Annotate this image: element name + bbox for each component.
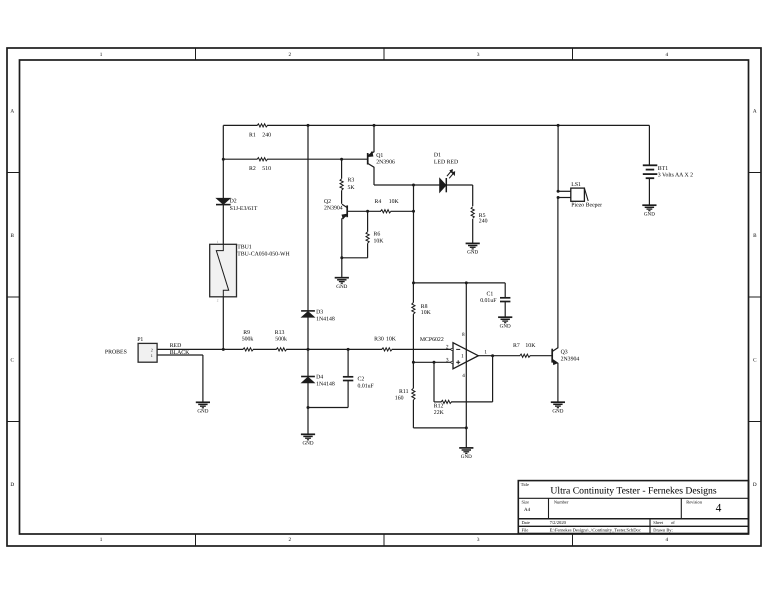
svg-text:P1: P1 xyxy=(137,337,143,343)
resistor R7 xyxy=(513,343,536,357)
svg-text:GND: GND xyxy=(644,211,655,217)
fuse TBU1 xyxy=(210,240,291,302)
resistor R13 xyxy=(275,330,287,351)
svg-text:GND: GND xyxy=(552,408,563,414)
svg-text:160: 160 xyxy=(395,396,404,402)
svg-text:3: 3 xyxy=(477,52,480,58)
diode D2 xyxy=(216,198,258,212)
svg-text:3: 3 xyxy=(477,537,480,543)
svg-text:BLACK: BLACK xyxy=(170,350,190,356)
svg-text:D: D xyxy=(10,482,14,488)
wire Q2 base / R4 xyxy=(347,210,381,212)
resistor R12 xyxy=(434,400,452,416)
wire Q1 collector down xyxy=(373,167,375,185)
wire D4 to C2 bottom xyxy=(308,407,348,409)
resistor R2 xyxy=(249,158,271,173)
resistor R8 xyxy=(412,283,432,362)
svg-text:10K: 10K xyxy=(374,239,385,245)
svg-text:D: D xyxy=(753,482,757,488)
svg-text:8: 8 xyxy=(462,332,465,338)
wire left branch: top rail down to D2 xyxy=(222,125,224,198)
svg-text:A: A xyxy=(10,108,14,114)
resistor R9 xyxy=(242,330,254,351)
ground below battery xyxy=(642,204,656,206)
wire Q1 emitter to top rail xyxy=(373,125,375,152)
resistor R1 xyxy=(249,124,271,139)
svg-text:D3: D3 xyxy=(316,310,323,316)
svg-text:Number: Number xyxy=(554,499,569,504)
wire top V+ rail xyxy=(223,124,257,126)
svg-text:R6: R6 xyxy=(374,231,381,237)
wire Q2 emitter to ground xyxy=(341,218,343,277)
wire probe rail down to D4 xyxy=(307,349,309,376)
svg-text:R11: R11 xyxy=(399,389,409,395)
svg-text:1N4148: 1N4148 xyxy=(316,317,335,323)
svg-text:Date: Date xyxy=(522,520,530,525)
battery BT1 xyxy=(643,125,693,204)
capacitor C1 xyxy=(480,283,510,317)
wire Q3 emitter to ground xyxy=(557,363,559,402)
svg-text:Ultra Continuity Tester - Fern: Ultra Continuity Tester - Fernekes Desig… xyxy=(550,486,716,497)
svg-text:R7: R7 xyxy=(513,343,520,349)
connector P1 probes xyxy=(105,337,157,362)
LED D1 xyxy=(434,152,458,192)
wire D4 to ground xyxy=(307,383,309,434)
svg-text:22K: 22K xyxy=(434,410,445,416)
svg-text:C2: C2 xyxy=(358,376,365,382)
svg-text:D1: D1 xyxy=(434,152,441,158)
svg-text:2N3904: 2N3904 xyxy=(561,357,580,363)
svg-text:2N3904: 2N3904 xyxy=(324,206,343,212)
ground below D4 xyxy=(301,433,315,435)
wire op-amp power vertical xyxy=(465,283,467,448)
wire R3 branch xyxy=(341,159,343,178)
svg-text:0.01uF: 0.01uF xyxy=(480,298,497,304)
transistor Q1 xyxy=(368,152,395,168)
svg-text:4: 4 xyxy=(716,503,722,515)
wire R12 feedback xyxy=(434,401,442,403)
svg-text:1: 1 xyxy=(461,354,464,360)
wire op-amp pin 3 node xyxy=(413,361,452,363)
svg-text:1: 1 xyxy=(100,537,103,543)
diode D3 xyxy=(301,310,335,323)
wire D3 to probe rail xyxy=(307,317,309,349)
svg-text:of: of xyxy=(671,520,675,525)
resistor R11 xyxy=(395,362,415,428)
wire TBU1 to probe rail xyxy=(222,297,224,350)
svg-text:Q3: Q3 xyxy=(561,349,568,355)
svg-text:500k: 500k xyxy=(242,336,254,343)
svg-text:R30: R30 xyxy=(374,337,384,343)
svg-text:B: B xyxy=(753,233,757,239)
svg-text:TBU1: TBU1 xyxy=(237,245,252,251)
svg-text:2: 2 xyxy=(289,52,292,58)
svg-text:10K: 10K xyxy=(386,337,397,343)
wire LED-line down to supply rail xyxy=(413,185,415,283)
wire R6 bottom to Q2 emitter xyxy=(342,257,368,259)
speaker LS1 piezo beeper xyxy=(558,182,602,209)
svg-text:A: A xyxy=(753,108,757,114)
resistor R4 xyxy=(375,199,400,213)
resistor R6 xyxy=(366,211,384,257)
svg-text:LS1: LS1 xyxy=(571,182,581,188)
svg-text:7/2/2020: 7/2/2020 xyxy=(550,520,567,525)
svg-text:D4: D4 xyxy=(316,374,323,380)
svg-text:D2: D2 xyxy=(230,199,237,205)
svg-text:3: 3 xyxy=(446,357,449,363)
svg-text:2: 2 xyxy=(151,347,153,352)
svg-text:1: 1 xyxy=(484,350,487,356)
ground below op-amp xyxy=(459,447,473,449)
svg-text:500k: 500k xyxy=(275,336,287,343)
op-amp U1 MCP6022 xyxy=(420,332,487,379)
svg-text:R12: R12 xyxy=(434,404,444,410)
svg-text:S1J-E3/61T: S1J-E3/61T xyxy=(230,206,258,212)
svg-text:3 Volts AA X 2: 3 Volts AA X 2 xyxy=(658,171,693,178)
svg-text:LED RED: LED RED xyxy=(434,160,458,166)
svg-text:240: 240 xyxy=(262,133,271,139)
wire op-amp output to Q3 base xyxy=(478,355,520,357)
svg-text:R2: R2 xyxy=(249,166,256,172)
wire R11 bottom to ground rail xyxy=(413,427,466,429)
svg-text:C1: C1 xyxy=(487,292,494,298)
svg-text:510: 510 xyxy=(262,166,271,172)
svg-text:Drawn By:: Drawn By: xyxy=(653,527,672,532)
wire Q3 collector up to beeper xyxy=(557,198,559,349)
svg-text:R9: R9 xyxy=(243,330,250,336)
svg-text:Size: Size xyxy=(522,499,530,504)
svg-text:B: B xyxy=(10,233,14,239)
wire LED cathode to R5 xyxy=(446,184,472,186)
resistor R5 xyxy=(471,207,487,225)
svg-text:TBU-CA050-050-WH: TBU-CA050-050-WH xyxy=(237,252,290,258)
svg-text:10K: 10K xyxy=(421,310,432,316)
ground below R5 xyxy=(466,242,480,244)
svg-text:GND: GND xyxy=(461,454,472,460)
transistor Q2 xyxy=(324,199,347,218)
svg-text:RED: RED xyxy=(170,343,182,349)
svg-text:1: 1 xyxy=(100,52,103,58)
resistor R30 xyxy=(374,337,397,351)
ground below C1 xyxy=(498,316,512,318)
svg-text:10K: 10K xyxy=(389,199,400,205)
wire supply rail to op-amp and C1 xyxy=(414,282,506,284)
svg-text:Title: Title xyxy=(521,482,529,487)
svg-text:1: 1 xyxy=(151,353,153,358)
svg-text:C: C xyxy=(10,357,14,363)
wire BLACK probe to ground xyxy=(157,354,203,356)
junction dots xyxy=(222,124,560,430)
wire beeper branch from top rail xyxy=(557,125,559,191)
svg-text:GND: GND xyxy=(336,284,347,290)
svg-text:240: 240 xyxy=(479,219,488,225)
diode D4 xyxy=(301,374,335,387)
svg-text:2: 2 xyxy=(446,345,449,351)
wire D2 to TBU1 xyxy=(222,205,224,245)
svg-text:R4: R4 xyxy=(375,199,382,205)
svg-text:GND: GND xyxy=(302,441,313,447)
svg-text:2: 2 xyxy=(289,537,292,543)
svg-text:2N3906: 2N3906 xyxy=(376,160,395,166)
svg-text:File: File xyxy=(522,527,529,532)
svg-text:10K: 10K xyxy=(525,343,536,349)
wire LED to R5 xyxy=(472,185,474,206)
svg-text:GND: GND xyxy=(467,250,478,256)
svg-text:0.01uF: 0.01uF xyxy=(358,384,375,390)
capacitor C2 xyxy=(343,349,375,407)
wire main probe rail to op-amp pin 2 xyxy=(157,348,243,350)
svg-text:E:\Fernekes Designs\..\Continu: E:\Fernekes Designs\..\Continuity_Tester… xyxy=(550,527,641,532)
svg-text:GND: GND xyxy=(197,409,208,415)
svg-text:4: 4 xyxy=(666,537,669,543)
svg-text:R13: R13 xyxy=(275,330,285,336)
title block xyxy=(518,481,748,534)
wire Q1 collector to LED xyxy=(374,184,440,186)
svg-text:Q2: Q2 xyxy=(324,199,331,205)
svg-text:5K: 5K xyxy=(348,185,356,191)
svg-text:A4: A4 xyxy=(524,507,531,513)
svg-text:R3: R3 xyxy=(348,178,355,184)
svg-text:4: 4 xyxy=(666,52,669,58)
transistor Q3 xyxy=(552,348,579,365)
svg-text:Revision: Revision xyxy=(686,499,702,504)
svg-text:R1: R1 xyxy=(249,133,256,139)
svg-text:Piezo Beeper: Piezo Beeper xyxy=(571,202,602,208)
ground below black probe wire xyxy=(196,401,210,403)
svg-text:GND: GND xyxy=(500,323,511,329)
ground below Q3 xyxy=(551,401,565,403)
resistor R3 xyxy=(340,178,355,191)
svg-text:Q1: Q1 xyxy=(376,153,383,159)
svg-text:BT1: BT1 xyxy=(658,166,668,172)
svg-text:PROBES: PROBES xyxy=(105,350,127,356)
svg-text:1: 1 xyxy=(217,240,219,244)
wire R2 rail to Q1 base xyxy=(223,158,257,160)
svg-text:2: 2 xyxy=(217,299,219,303)
svg-text:MCP6022: MCP6022 xyxy=(420,337,444,343)
wire mid branch: top rail down to D3 xyxy=(307,125,309,311)
svg-text:C: C xyxy=(753,357,757,363)
svg-text:1N4148: 1N4148 xyxy=(316,381,335,387)
ground below Q2 xyxy=(335,277,349,279)
svg-text:4: 4 xyxy=(462,373,465,379)
svg-text:Sheet: Sheet xyxy=(653,520,664,525)
wire R5 to ground xyxy=(472,219,474,243)
